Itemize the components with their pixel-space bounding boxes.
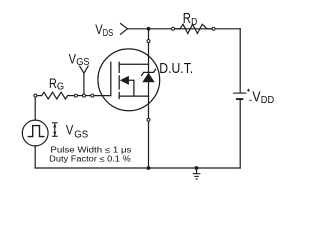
VGS probe chevron bbox=[80, 66, 88, 73]
svg-text:D: D bbox=[191, 17, 197, 28]
battery minus sign bbox=[249, 99, 251, 101]
terminal circle drain lead bbox=[147, 40, 150, 43]
svg-text:Duty Factor ≤ 0.1 %: Duty Factor ≤ 0.1 % bbox=[49, 155, 131, 164]
wire top: VDS probe to right rail bbox=[128, 28, 241, 30]
battery VDD bbox=[233, 93, 246, 99]
label VGS gate bbox=[69, 50, 90, 68]
wire right rail upper bbox=[239, 29, 241, 93]
terminal circle RD left bbox=[172, 27, 175, 30]
svg-text:R: R bbox=[183, 11, 191, 27]
svg-text:R: R bbox=[49, 75, 57, 91]
body diode cathode bar (zener) bbox=[142, 69, 156, 75]
terminal circle source lead bbox=[147, 118, 150, 121]
terminal circle RG left bbox=[34, 94, 37, 97]
MOSFET diode lead through bbox=[148, 64, 150, 96]
VDS probe chevron bbox=[121, 24, 128, 35]
label RD bbox=[183, 11, 198, 28]
junction dot ground node bbox=[195, 166, 199, 170]
wire pulse gen top lead bbox=[34, 97, 36, 120]
MOSFET drain lead bbox=[148, 29, 150, 65]
body diode triangle bbox=[142, 73, 154, 83]
channel segment body bbox=[118, 76, 120, 89]
label VGS pulse bbox=[66, 122, 89, 141]
body arrow bbox=[120, 76, 129, 85]
wire pulse gen bottom lead bbox=[34, 146, 36, 168]
svg-text:G: G bbox=[57, 82, 64, 93]
battery plus sign bbox=[247, 89, 250, 92]
gate bar bbox=[110, 62, 112, 95]
resistor RG bbox=[68, 95, 75, 97]
svg-text:GS: GS bbox=[76, 57, 90, 68]
wire gate row bbox=[37, 95, 42, 97]
svg-text:GS: GS bbox=[74, 129, 88, 140]
MOSFET source lead bbox=[148, 96, 150, 168]
label VDS bbox=[95, 21, 113, 39]
drain stub bbox=[119, 63, 148, 65]
VGS dimension marker arrow down bbox=[53, 132, 56, 136]
VGS dimension marker arrow up bbox=[53, 123, 56, 127]
VGS dimension marker bbox=[52, 123, 58, 137]
label VDD bbox=[252, 89, 274, 107]
VGS sense line bbox=[83, 73, 85, 94]
mosfet envelope circle bbox=[98, 49, 160, 111]
junction dot top (drain node) bbox=[147, 27, 151, 31]
junction dot bottom (source node) bbox=[147, 166, 151, 170]
pulse generator source bbox=[22, 120, 48, 146]
wire right rail lower bbox=[239, 99, 241, 168]
svg-text:D.U.T.: D.U.T. bbox=[159, 60, 193, 77]
terminal circle gate node VGS bbox=[82, 94, 85, 97]
pulse waveform bbox=[28, 126, 45, 137]
body contact line bbox=[129, 80, 134, 96]
terminal circle RG right bbox=[74, 94, 77, 97]
svg-text:V: V bbox=[252, 89, 260, 106]
wire bottom bbox=[35, 167, 240, 169]
label RG bbox=[49, 75, 64, 93]
channel segment source bbox=[118, 92, 120, 98]
svg-text:Pulse Width ≤ 1 μs: Pulse Width ≤ 1 μs bbox=[50, 145, 131, 154]
wire gate row right of RG circles bbox=[77, 95, 82, 97]
svg-text:V: V bbox=[66, 122, 74, 138]
channel segment drain bbox=[118, 62, 120, 72]
svg-text:DD: DD bbox=[261, 94, 275, 106]
resistor RD bbox=[175, 28, 181, 30]
terminal circle gate entry bbox=[91, 94, 94, 97]
source stub bbox=[119, 95, 148, 97]
D.U.T. MOSFET U1 bbox=[98, 49, 160, 111]
svg-text:DS: DS bbox=[103, 28, 114, 39]
terminal circle RD right bbox=[212, 27, 215, 30]
ground bbox=[193, 168, 201, 179]
